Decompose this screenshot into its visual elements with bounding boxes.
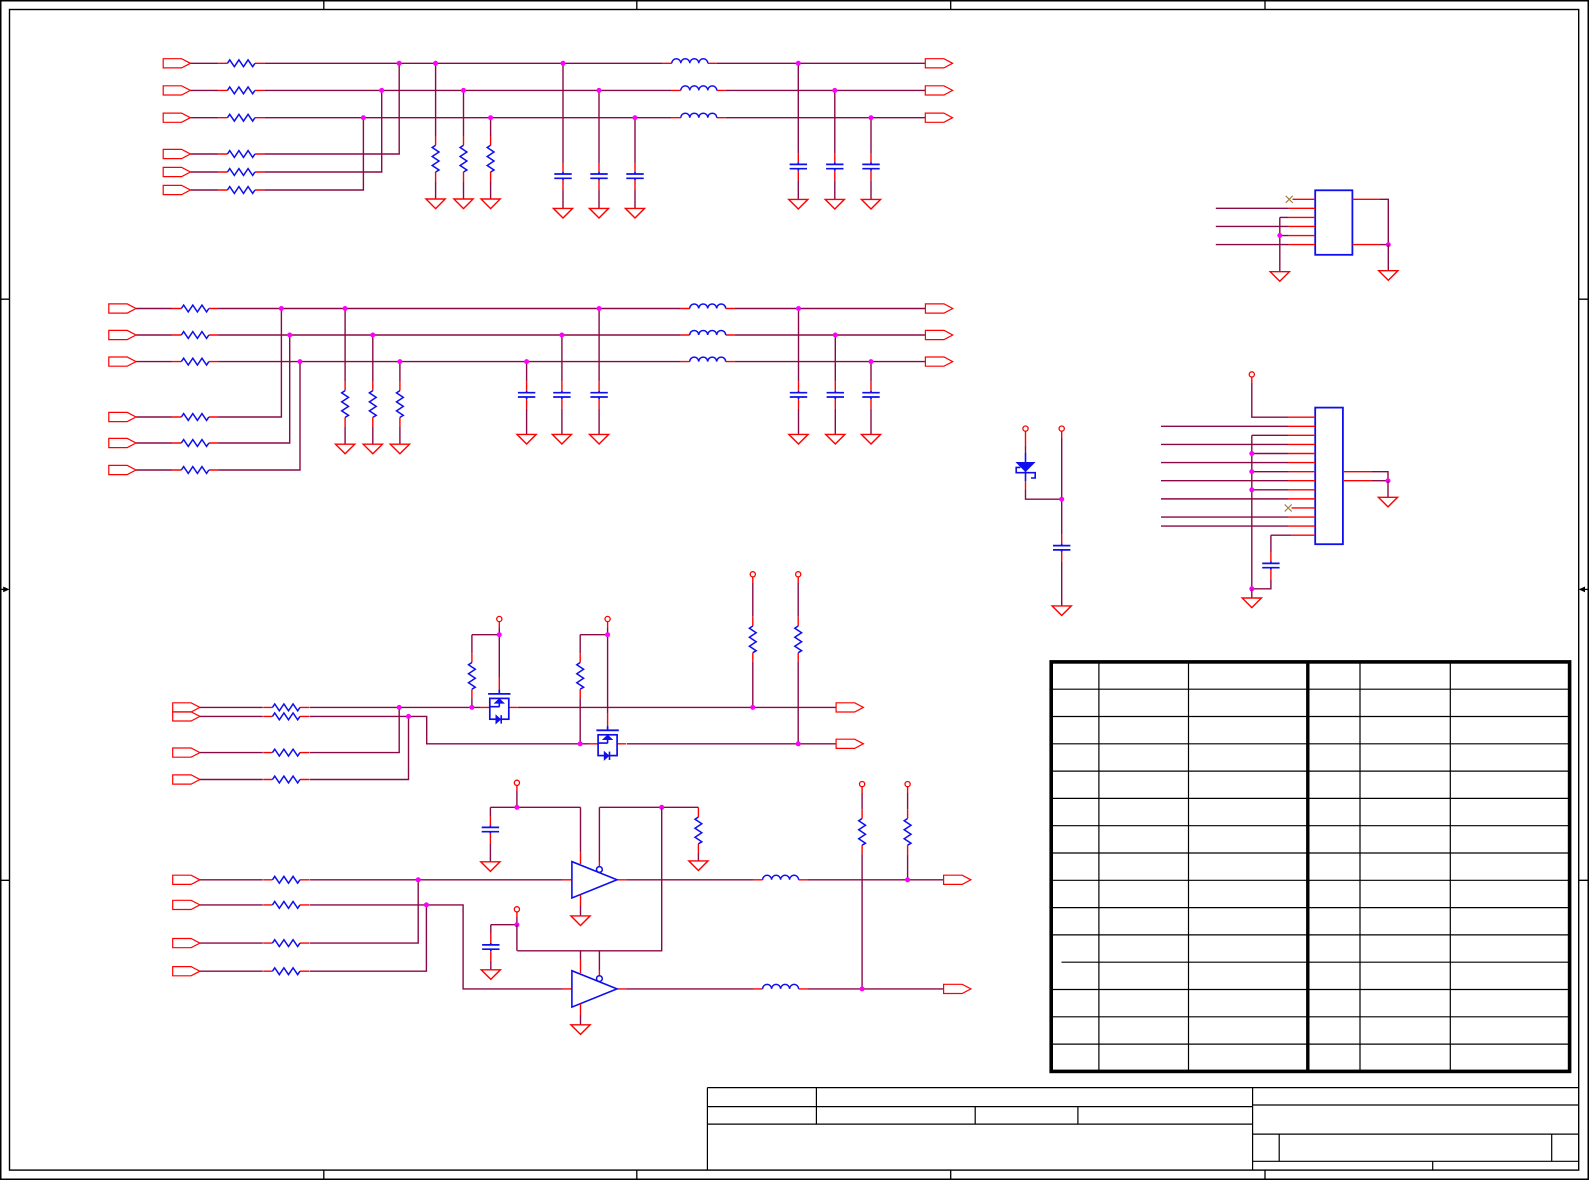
junction B1/C31 (597, 306, 602, 311)
power pin VP11 (905, 782, 910, 787)
wire bus to ground (1251, 589, 1253, 598)
ground of C23 (861, 199, 880, 209)
wire D1 to net (1026, 490, 1062, 499)
wire net B1 main rail (218, 308, 681, 310)
port J5-1 (173, 875, 200, 884)
pin 5 stub U1 (1288, 235, 1315, 237)
wire C41 to ground (798, 409, 800, 435)
lead VP1 to D1 (1025, 431, 1027, 446)
wire net A4 to rail (264, 63, 399, 154)
wire VP4 (498, 628, 500, 635)
power pin VP7 (796, 572, 801, 577)
wire VP8 to rail (516, 791, 518, 807)
wire net D2 to U3 (310, 905, 563, 989)
wire to U1 pin5 (1280, 235, 1289, 237)
ground of R43 (390, 444, 409, 454)
port P1-1 (925, 59, 952, 68)
wire U3 out (626, 988, 753, 990)
wire rail to R81 (697, 806, 699, 809)
wire R21 to ground (435, 181, 437, 199)
port J4-2 (173, 712, 200, 721)
pin 12 stub J3 (1288, 516, 1315, 518)
junction J3 right (1386, 478, 1391, 483)
lead VP2 (1061, 431, 1063, 438)
wire U2 out (626, 879, 753, 881)
wire to U3 vcc (580, 951, 582, 960)
enable rail U2 (599, 806, 698, 808)
wire rail to U2 vcc (580, 807, 582, 852)
resistor R83 (904, 809, 911, 854)
port P1-2 (925, 86, 952, 95)
resistor R22 (460, 136, 467, 181)
power pin VP5 (605, 616, 610, 621)
wire C42 to ground (834, 409, 836, 435)
wire C31 to ground (598, 409, 600, 435)
junction C1/C3 (397, 705, 402, 710)
port J1-5 (163, 167, 190, 176)
wire net C1 rail right (518, 706, 836, 708)
capacitor C21 (790, 153, 807, 180)
wire rail down (516, 925, 518, 951)
wire C5 to ground (1061, 562, 1063, 606)
pin 6 stub J3 (1288, 462, 1315, 464)
resistor R74 (263, 968, 309, 975)
wire R62 to net C2 (579, 698, 581, 743)
wire to C11 (562, 63, 564, 163)
transistor Q1 (480, 690, 518, 724)
wire R23 to ground (490, 181, 492, 199)
wire net B3 left (136, 361, 172, 363)
wire enable U2 (598, 807, 600, 861)
resistor R13 (218, 114, 264, 121)
resistor R82 (859, 809, 866, 854)
wire net D4 to D2 (310, 905, 427, 971)
wire C13 to ground (634, 190, 636, 208)
title block right dividers (1279, 1134, 1552, 1161)
drain lead Q1 (498, 677, 500, 690)
inductor L11 (663, 59, 717, 64)
wire net B5 left (136, 442, 172, 444)
wire VP7 to R64 (797, 583, 799, 617)
gnd lead U2 (580, 895, 582, 906)
ground U3 (571, 1025, 590, 1035)
left zone ticks (1, 299, 10, 880)
wire U1 right bus to ground (1387, 245, 1389, 271)
port P5-1 (944, 875, 971, 884)
wire to R23 (490, 118, 492, 136)
capacitor C43 (862, 382, 879, 409)
wire net B6 left (136, 469, 172, 471)
wire to C12 (598, 90, 600, 163)
gnd lead U3 (580, 1004, 582, 1015)
junction R82/D2 (860, 986, 865, 991)
junction A1/A4 (397, 61, 402, 66)
pin 14 stub J3 (1292, 534, 1316, 536)
power pin VP8 (514, 780, 519, 785)
port P4-1 (836, 703, 863, 712)
wire net A4 left (190, 153, 218, 155)
ground of C12 (589, 208, 608, 218)
port J4-4 (173, 775, 200, 784)
junction A3/A6 (361, 115, 366, 120)
capacitor C32 (553, 382, 570, 409)
vcc lead U3 (580, 960, 582, 973)
junction J3 bus/C6 (1249, 586, 1254, 591)
capacitor C13 (626, 163, 643, 190)
ground J3 right (1378, 497, 1397, 507)
wire net D3 left (200, 942, 263, 944)
resistor R64 (795, 617, 802, 662)
capacitor C41 (790, 382, 807, 409)
junction R83/D1 (905, 877, 910, 882)
wire net B3 rail right (735, 361, 926, 363)
resistor R31 (172, 305, 218, 312)
inductor L22 (681, 331, 735, 336)
wire net A6 left (190, 189, 218, 191)
junction D2/D4 (424, 902, 429, 907)
power pin VP3 (1249, 372, 1254, 377)
wire VP6 to R63 (752, 583, 754, 617)
junction B2/C32 (559, 333, 564, 338)
junction A2/A5 (379, 88, 384, 93)
wire net C3 left (200, 752, 263, 754)
enable lead U3 (598, 971, 600, 976)
wire net D2 left (200, 904, 263, 906)
resistor R32 (172, 332, 218, 339)
junction A1/R21 (433, 61, 438, 66)
diode D1 (TVS) (1016, 453, 1035, 481)
ground of C22 (825, 199, 844, 209)
port P2-2 (925, 330, 952, 339)
transistor Q2 (589, 726, 627, 760)
wire to R21 (435, 63, 437, 136)
junction B3/C33 (524, 359, 529, 364)
connector U1 body (1315, 190, 1352, 255)
wire R64 to net C2 (797, 662, 799, 744)
wire J3 right to ground (1387, 481, 1389, 498)
wire to U1 pin3 (1280, 216, 1289, 218)
wire C21 to ground (797, 180, 799, 199)
wire to U1 pin2 (1216, 207, 1289, 209)
port P2-3 (925, 357, 952, 366)
wire to R41 (344, 309, 346, 382)
resistor R34 (172, 414, 218, 421)
pin stub J3 right pin8 (1343, 480, 1372, 482)
bus wire to J3 pin7 (1252, 471, 1288, 473)
revision table row lines (1051, 689, 1569, 1044)
inductor L31 (754, 875, 808, 880)
junction B3/R43 (397, 359, 402, 364)
inductor L32 (754, 984, 808, 989)
power pin VP1 (1023, 426, 1028, 431)
pin 2 stub J3 (1288, 425, 1315, 427)
capacitor C33 (518, 382, 535, 409)
wire net B1 rail right (735, 308, 926, 310)
junction J3 pin7 bus (1249, 469, 1254, 474)
revision table outer frame (1051, 662, 1569, 1072)
power pin VP10 (860, 782, 865, 787)
inductor L23 (681, 357, 735, 362)
resistor R14 (218, 151, 264, 158)
wire net B5 to rail (218, 335, 290, 443)
pin stub U1 right top (1352, 198, 1379, 200)
junction B1/R41 (343, 306, 348, 311)
wire to C42 (834, 335, 836, 382)
junction B3/C43 (869, 359, 874, 364)
wire net D2 out (808, 988, 944, 990)
wire to C31 (598, 309, 600, 382)
wire to C23 (870, 118, 872, 154)
wire VP9 (516, 917, 518, 925)
resistor R41 (342, 381, 349, 426)
ground bus J3 (1251, 435, 1253, 588)
junction A1/C11 (561, 61, 566, 66)
wire R81 to ground (697, 853, 699, 861)
wire net B1 left (136, 308, 172, 310)
lead VP7 (797, 577, 799, 583)
enable lead U2 (598, 862, 600, 867)
bus wire to J3 pin5 (1252, 453, 1288, 455)
wire to J3 pin10 (1161, 498, 1288, 500)
power pin VP9 (514, 907, 519, 912)
port J5-4 (173, 967, 200, 976)
port J1-4 (163, 149, 190, 158)
wire VP3 to J3 pin1 (1252, 383, 1288, 417)
wire to R22 (463, 90, 465, 136)
wire net A1 main rail (264, 62, 663, 64)
right zone ticks (1579, 299, 1589, 880)
pin 5 stub J3 (1288, 453, 1315, 455)
wire net C2 left (200, 715, 263, 717)
wire to C43 (870, 362, 872, 382)
wire C43 to ground (870, 409, 872, 435)
wire U3 to ground (580, 1015, 582, 1025)
wire drain Q1 (498, 635, 500, 677)
wire rail to C8 (490, 925, 492, 934)
title block right rows (1253, 1105, 1579, 1161)
port P2-1 (925, 304, 952, 313)
wire U1 right bottom (1380, 244, 1389, 246)
wire to C32 (561, 335, 563, 382)
wire J3 right pin7 (1372, 472, 1388, 481)
wire C11 to ground (562, 190, 564, 208)
wire VP2 down to C5 (1061, 438, 1063, 535)
pin 8 stub J3 (1288, 480, 1315, 482)
capacitor C6 (1262, 552, 1279, 579)
junction B3/B6 (298, 359, 303, 364)
lead VP3 (1251, 377, 1253, 383)
capacitor C12 (590, 163, 607, 190)
wire C23 to ground (870, 180, 872, 199)
wire net D3 to D1 (310, 880, 419, 943)
wire R41 to ground (344, 427, 346, 445)
capacitor C42 (827, 382, 844, 409)
wire to C21 (797, 63, 799, 153)
junction R63/C1 (750, 705, 755, 710)
inductor L12 (672, 86, 726, 91)
lead VP11 (907, 787, 909, 793)
wire net B3 main rail (218, 361, 681, 363)
wire net A3 main rail (264, 117, 672, 119)
pin 1 stub U1 (1293, 198, 1316, 200)
wire to J3 pin6 (1161, 462, 1288, 464)
pin 11 stub J3 (1292, 507, 1316, 509)
wire R82 to net D2 (861, 854, 863, 989)
capacitor C11 (554, 163, 571, 190)
wire R83 to net D1 (907, 854, 909, 879)
capacitor C8 (482, 934, 499, 961)
title block left rows (707, 1107, 1252, 1125)
wire net D1 to U2 (310, 879, 563, 881)
junction D1/D3 (416, 877, 421, 882)
resistor R62 (577, 653, 584, 698)
port J2-1 (109, 304, 136, 313)
resistor R51 (263, 704, 309, 711)
ground of C41 (789, 434, 808, 444)
wire to J3 pin4 (1161, 443, 1288, 445)
title block outline (707, 1088, 1578, 1171)
bus wire to J3 pin3 (1252, 434, 1288, 436)
resistor R35 (172, 440, 218, 447)
junction J3 pin5 bus (1249, 451, 1254, 456)
power pin VP6 (750, 572, 755, 577)
wire to D1 (1025, 446, 1027, 453)
ground U2 (571, 916, 590, 926)
resistor R53 (263, 749, 309, 756)
wire net A2 rail right (726, 89, 926, 91)
capacitor C31 (590, 382, 607, 409)
wire R63 to net C1 (752, 662, 754, 708)
revision table column lines (1099, 662, 1450, 1072)
pin stub J3 right pin7 (1343, 471, 1372, 473)
pin 9 stub J3 (1288, 489, 1315, 491)
wire VP5 to R62 top (580, 634, 607, 636)
no-connect U1 pin1 (1286, 196, 1293, 203)
junction A2/R22 (461, 88, 466, 93)
wire net B2 left (136, 334, 172, 336)
wire C6 to ground bus (1252, 579, 1271, 588)
wire net A1 rail right (717, 62, 926, 64)
ground of C33 (517, 434, 536, 444)
junction A3/C13 (633, 115, 638, 120)
junction U1 pin5 bus (1277, 233, 1282, 238)
capacitor C7 (482, 816, 499, 843)
wire net A2 left (190, 89, 218, 91)
wire net A3 left (190, 117, 218, 119)
wire net C1 left (200, 706, 263, 708)
junction A3/C23 (869, 115, 874, 120)
ground of C7 (481, 862, 500, 872)
ground of R81 (689, 861, 708, 871)
drain lead Q2 (607, 713, 609, 726)
wire R22 to ground (463, 181, 465, 199)
top zone ticks (324, 1, 1265, 10)
wire C12 to ground (598, 190, 600, 208)
inductor L21 (681, 304, 735, 309)
wire to R42 (372, 335, 374, 381)
wire rail to C7 (489, 807, 491, 816)
junction VP4/R61/Q1 (497, 632, 502, 637)
wire to J3 pin12 (1161, 516, 1288, 518)
junction VP5/R62/Q2 (605, 632, 610, 637)
ground of R22 (454, 199, 473, 209)
port J2-3 (109, 357, 136, 366)
ground of R21 (426, 199, 445, 209)
wire net A5 to rail (264, 90, 382, 172)
capacitor C22 (826, 153, 843, 180)
wire U1 right top to bus (1380, 199, 1389, 244)
wire C8 to ground (490, 961, 492, 970)
resistor R43 (397, 381, 404, 426)
wire to R43 (399, 362, 401, 382)
junction enable rail (659, 805, 664, 810)
wire drain Q2 (607, 635, 609, 714)
wire net D1 out (808, 879, 944, 881)
resistor R73 (263, 940, 309, 947)
ground of C32 (552, 434, 571, 444)
capacitor C23 (862, 153, 879, 180)
resistor R21 (432, 136, 439, 181)
ground of C42 (826, 434, 845, 444)
pin 6 stub U1 (1288, 244, 1315, 246)
port J2-2 (109, 330, 136, 339)
wire U2 to ground (580, 906, 582, 916)
resistor R11 (218, 60, 264, 67)
power pin VP2 (1059, 426, 1064, 431)
junction B1/B4 (279, 306, 284, 311)
power pin VP4 (497, 616, 502, 621)
wire C22 to ground (834, 180, 836, 199)
power rail U2 (490, 806, 580, 808)
pin 3 stub U1 (1288, 216, 1315, 218)
junction A2/C12 (597, 88, 602, 93)
wire to U1 pin4 (1216, 225, 1289, 227)
port P4-2 (836, 739, 863, 748)
port J5-3 (173, 939, 200, 948)
ground of R41 (336, 444, 355, 454)
pin 4 stub U1 (1288, 225, 1315, 227)
port J2-4 (109, 412, 136, 421)
wire net A1 left (190, 62, 218, 64)
lead VP9 (516, 912, 518, 917)
lead VP4 (498, 622, 500, 628)
wire C7 to ground (489, 843, 491, 861)
wire C33 to ground (526, 409, 528, 435)
junction B2/C42 (833, 333, 838, 338)
wire net B4 left (136, 416, 172, 418)
ground of R23 (481, 199, 500, 209)
capacitor C5 (1053, 535, 1070, 562)
wire net C4 left (200, 779, 263, 781)
resistor R23 (487, 136, 494, 181)
wire VP5 (607, 628, 609, 635)
junction B1/C41 (796, 306, 801, 311)
junction C2/C4 (406, 714, 411, 719)
wire to C22 (834, 90, 836, 153)
lead VP10 (861, 787, 863, 793)
inductor L13 (672, 113, 726, 118)
wire to C13 (634, 118, 636, 163)
resistor R15 (218, 169, 264, 176)
port J2-5 (109, 438, 136, 447)
no-connect J3 pin11 (1285, 504, 1292, 511)
junction VP9 rail (514, 922, 519, 927)
wire to U3 enable (598, 951, 600, 971)
junction R62/C2 (578, 741, 583, 746)
wire R61 to net C1 (471, 698, 473, 707)
left mid arrow (1, 588, 5, 590)
ground of C31 (590, 434, 609, 444)
